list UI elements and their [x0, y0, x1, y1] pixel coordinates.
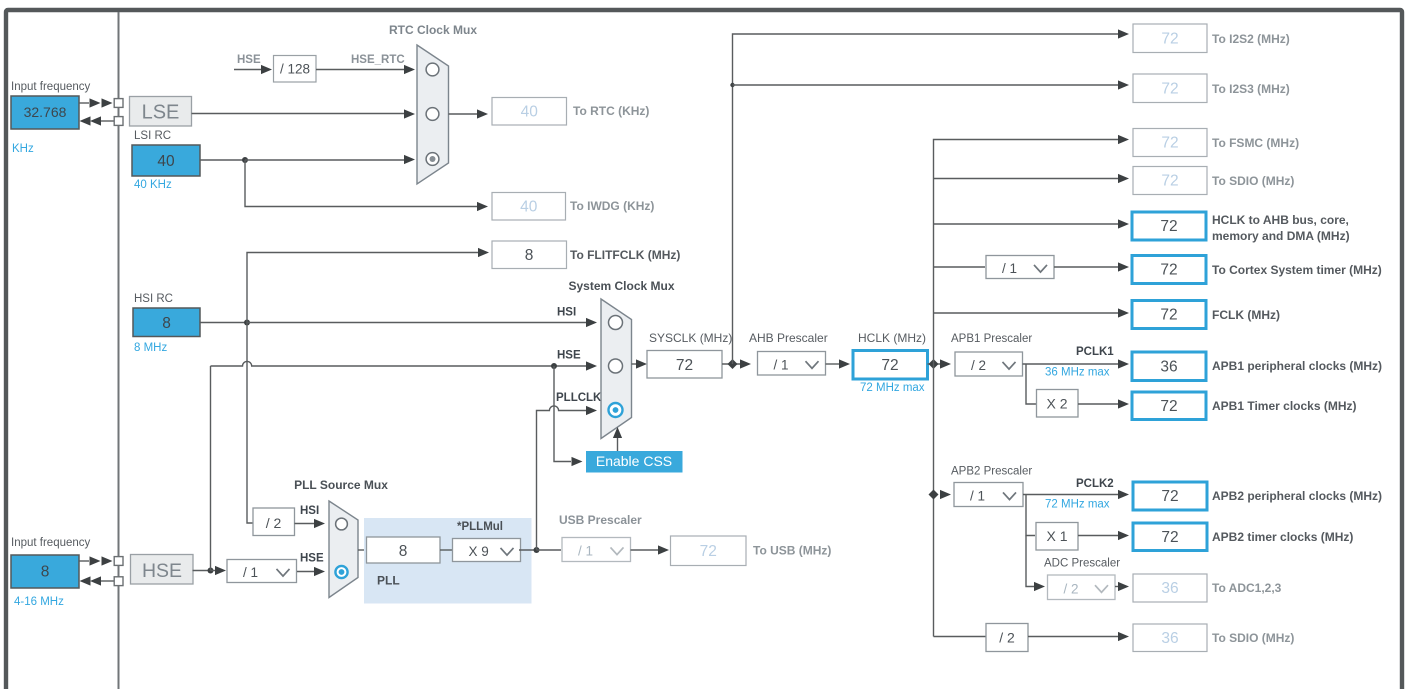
output box To SDIO — [1133, 167, 1207, 195]
output box APB2 timer (active) — [1133, 523, 1207, 551]
svg-text:To I2S2 (MHz): To I2S2 (MHz) — [1212, 32, 1290, 46]
wire SYSCLK to AHB prescaler — [722, 363, 741, 365]
radio HSE (sys) — [609, 359, 623, 373]
svg-text:memory and DMA (MHz): memory and DMA (MHz) — [1212, 229, 1350, 243]
svg-text:8 MHz: 8 MHz — [134, 342, 167, 354]
junction HSI — [244, 320, 250, 326]
wire cortex branch — [934, 266, 986, 268]
prescaler dropdown AHB /1 — [758, 352, 826, 376]
svg-text:/ 2: / 2 — [971, 358, 986, 373]
svg-text:72: 72 — [1161, 135, 1178, 152]
divider box /2 (SDIO) — [986, 624, 1028, 652]
wire ADC prescaler to box — [1115, 586, 1118, 588]
svg-text:/ 2: / 2 — [266, 515, 282, 531]
svg-text:APB1 Prescaler: APB1 Prescaler — [951, 333, 1032, 345]
svg-text:8: 8 — [41, 564, 50, 581]
wire SYSCLK riser to I2S — [733, 34, 1119, 364]
svg-text:To I2S3 (MHz): To I2S3 (MHz) — [1212, 82, 1290, 96]
output box To FLITFCLK — [492, 241, 567, 269]
radio HSI (sys) — [609, 316, 623, 330]
svg-text:/ 1: / 1 — [578, 544, 593, 559]
svg-text:To SDIO (MHz): To SDIO (MHz) — [1212, 174, 1294, 188]
wire PLL box to PLLMul — [440, 549, 453, 551]
radio LSI input (selected) — [426, 153, 439, 166]
svg-text:72: 72 — [1160, 398, 1177, 415]
prescaler dropdown cortex /1 — [986, 256, 1054, 279]
svg-text:PLLCLK: PLLCLK — [556, 392, 602, 404]
wire HCLK bus to SDIO /2 — [934, 636, 987, 638]
output box APB1 timer (active) — [1132, 392, 1206, 420]
svg-text:AHB Prescaler: AHB Prescaler — [749, 331, 828, 345]
svg-text:X 2: X 2 — [1046, 396, 1067, 412]
wire I2S3 branch — [730, 83, 734, 87]
wire HSE riser to system mux — [210, 366, 212, 571]
oscillator box LSE — [130, 97, 192, 127]
junction LSI — [242, 157, 248, 163]
wire HCLK bus riser down — [933, 364, 935, 637]
svg-text:To IWDG (KHz): To IWDG (KHz) — [570, 199, 654, 213]
wire enable CSS to mux — [617, 438, 619, 451]
wire HSI to junction — [200, 322, 247, 324]
svg-text:36: 36 — [1161, 630, 1178, 647]
svg-text:72: 72 — [1161, 173, 1178, 190]
svg-text:HSE_RTC: HSE_RTC — [351, 54, 405, 66]
radio HSE (pll, selected) — [335, 566, 347, 578]
svg-text:HSI RC: HSI RC — [134, 293, 173, 305]
wire HSI riser to FLITFCLK — [247, 253, 478, 323]
svg-text:HSI: HSI — [300, 505, 319, 517]
wire X1 to APB2 timer box — [1078, 535, 1118, 537]
svg-text:/ 128: / 128 — [280, 62, 310, 77]
divider dropdown /1 (HSE to PLL) — [227, 560, 297, 583]
input box 8 MHz HSE — [11, 555, 79, 588]
junction HCLK diamond — [929, 359, 939, 369]
wire LSI to IWDG — [245, 160, 477, 207]
wire AHB to HCLK — [826, 363, 840, 365]
svg-text:40: 40 — [520, 198, 538, 215]
output box APB1 peripheral (active) — [1132, 352, 1206, 381]
svg-text:72: 72 — [1161, 529, 1178, 546]
wire enable CSS feed — [554, 366, 571, 462]
svg-text:To FLITFCLK (MHz): To FLITFCLK (MHz) — [570, 248, 680, 262]
svg-text:LSI RC: LSI RC — [134, 130, 171, 142]
svg-text:APB2 timer clocks (MHz): APB2 timer clocks (MHz) — [1212, 530, 1353, 544]
svg-text:HSE: HSE — [142, 560, 182, 582]
prescaler dropdown APB1 /2 — [955, 352, 1023, 376]
wire HCLK bus riser up — [934, 140, 1119, 365]
svg-text:72: 72 — [1160, 262, 1177, 279]
junction SYSCLK diamond — [728, 359, 738, 369]
svg-text:FCLK (MHz): FCLK (MHz) — [1212, 308, 1280, 322]
svg-text:/ 2: / 2 — [1064, 581, 1079, 596]
svg-text:Enable CSS: Enable CSS — [596, 453, 672, 469]
wire LSI to RTC mux — [245, 159, 404, 161]
output box To I2S2 — [1133, 24, 1207, 53]
wire /1 to PLL mux — [297, 571, 314, 573]
svg-text:8: 8 — [399, 543, 408, 560]
wire FCLK branch — [934, 312, 1119, 314]
svg-text:KHz: KHz — [12, 143, 34, 155]
wire HSE box to junction — [193, 570, 211, 572]
svg-text:/ 1: / 1 — [1002, 261, 1017, 276]
output box To Cortex (active) — [1132, 256, 1206, 284]
svg-text:72: 72 — [1160, 218, 1177, 235]
svg-text:Input frequency: Input frequency — [11, 81, 91, 93]
wire /2 to PLL mux — [295, 523, 315, 525]
wire APB2 branch to ADC — [1026, 536, 1034, 587]
svg-text:Input frequency: Input frequency — [11, 537, 91, 549]
wire APB1 to PCLK1 box — [1023, 363, 1119, 365]
output box To RTC — [492, 98, 567, 126]
wire USB prescaler to box — [631, 549, 659, 551]
svg-text:36: 36 — [1160, 358, 1177, 375]
svg-text:PCLK1: PCLK1 — [1076, 346, 1114, 358]
svg-text:72: 72 — [700, 543, 717, 560]
wire PLL mux to PLL — [358, 549, 367, 551]
svg-text:40 KHz: 40 KHz — [134, 179, 172, 191]
svg-text:/ 1: / 1 — [243, 565, 258, 580]
PLL region background — [364, 518, 532, 604]
svg-text:36 MHz max: 36 MHz max — [1045, 367, 1110, 379]
wire PLLMul to junction — [519, 549, 536, 551]
svg-text:X 9: X 9 — [469, 544, 489, 559]
value box SYSCLK 72 — [647, 351, 722, 379]
svg-text:4-16 MHz: 4-16 MHz — [14, 596, 64, 608]
wire APB1 branch to X2 — [1026, 364, 1036, 404]
wire HCLK to APB1 — [928, 363, 942, 365]
svg-text:72 MHz max: 72 MHz max — [1045, 499, 1110, 511]
svg-text:HCLK (MHz): HCLK (MHz) — [858, 331, 926, 345]
multiplier dropdown X9 — [453, 539, 521, 562]
svg-text:X 1: X 1 — [1046, 528, 1067, 544]
svg-text:36: 36 — [1161, 580, 1178, 597]
wire LSE input to rail — [79, 102, 89, 104]
svg-text:LSE: LSE — [142, 102, 180, 124]
svg-text:/ 2: / 2 — [999, 630, 1015, 646]
svg-text:72: 72 — [1160, 307, 1177, 324]
divider box /128 — [274, 56, 317, 83]
prescaler dropdown USB /1 (inactive) — [562, 538, 631, 562]
svg-text:HCLK to AHB bus, core,: HCLK to AHB bus, core, — [1212, 213, 1349, 227]
divider box /2 (HSI to PLL) — [253, 508, 295, 536]
svg-text:To Cortex System timer (MHz): To Cortex System timer (MHz) — [1212, 263, 1382, 277]
svg-text:HSI: HSI — [557, 307, 576, 319]
wire SDIO branch — [934, 178, 1119, 180]
svg-text:APB2 Prescaler: APB2 Prescaler — [951, 466, 1032, 478]
wire HSI riser to PLL /2 — [247, 323, 253, 524]
radio HSI (pll) — [336, 518, 348, 530]
wire cortex prescaler to box — [1054, 266, 1118, 268]
wire PLLCLK riser with hop — [537, 406, 587, 550]
wire /2 to SDIO box — [1028, 636, 1118, 638]
wire rail to LSE back — [100, 120, 115, 122]
svg-text:RTC Clock Mux: RTC Clock Mux — [389, 23, 477, 37]
wire rail to HSE back — [100, 580, 115, 582]
junction PLL output — [534, 547, 540, 553]
output box To IWDG — [492, 193, 566, 221]
svg-text:To ADC1,2,3: To ADC1,2,3 — [1212, 581, 1282, 595]
svg-text:72 MHz max: 72 MHz max — [860, 382, 925, 394]
svg-text:72: 72 — [1161, 488, 1178, 505]
mux RTC Clock Mux body — [417, 45, 449, 184]
svg-text:System Clock Mux: System Clock Mux — [568, 279, 674, 293]
wire LSI to junction — [200, 159, 245, 161]
junction HSE to CSS — [551, 363, 557, 369]
multiplier box X2 — [1037, 390, 1079, 418]
wire HSE input to rail — [79, 560, 89, 562]
rail pin square lower — [114, 117, 123, 126]
svg-text:40: 40 — [157, 153, 175, 170]
radio PLLCLK (sys, selected) — [609, 403, 623, 417]
oscillator box HSE — [131, 555, 194, 585]
wire APB2 to PCLK2 box — [1023, 494, 1118, 496]
svg-text:8: 8 — [525, 247, 534, 264]
output box To FSMC — [1133, 129, 1207, 157]
svg-text:To FSMC (MHz): To FSMC (MHz) — [1212, 136, 1299, 150]
rail pin square upper — [114, 99, 123, 108]
wire HSI to system mux — [247, 322, 586, 324]
svg-text:To USB (MHz): To USB (MHz) — [753, 544, 831, 558]
junction APB2 diamond — [929, 490, 939, 500]
radio HSE_RTC input — [426, 63, 439, 76]
mux System Clock Mux body — [601, 299, 632, 439]
wire PLL to USB prescaler — [537, 549, 562, 551]
svg-text:ADC Prescaler: ADC Prescaler — [1044, 558, 1120, 570]
svg-text:32.768: 32.768 — [24, 104, 67, 120]
output box To SDIO bottom — [1133, 624, 1207, 652]
svg-text:HSE: HSE — [557, 350, 581, 362]
wire HSE horizontal with hop over HSI riser — [211, 361, 587, 366]
svg-text:*PLLMul: *PLLMul — [457, 521, 503, 533]
junction HSE — [208, 568, 214, 574]
output box FCLK (active) — [1132, 301, 1206, 329]
mux PLL Source Mux body — [329, 501, 358, 598]
svg-text:PCLK2: PCLK2 — [1076, 478, 1114, 490]
svg-text:To SDIO (MHz): To SDIO (MHz) — [1212, 631, 1294, 645]
radio LSE input — [426, 108, 439, 121]
enable CSS button — [586, 451, 683, 473]
rail pin square HSE lower — [114, 577, 123, 586]
svg-text:APB2 peripheral clocks (MHz): APB2 peripheral clocks (MHz) — [1212, 489, 1382, 503]
svg-text:72: 72 — [1161, 80, 1178, 97]
prescaler dropdown APB2 /1 — [954, 483, 1023, 507]
svg-text:PLL: PLL — [377, 574, 400, 588]
wire RTC mux output — [449, 113, 478, 115]
prescaler dropdown ADC /2 (inactive) — [1048, 575, 1116, 600]
svg-text:/ 1: / 1 — [774, 357, 789, 372]
svg-text:8: 8 — [162, 315, 171, 332]
svg-text:SYSCLK (MHz): SYSCLK (MHz) — [649, 331, 732, 345]
PLL input value box 8 — [367, 537, 441, 563]
output box To USB — [671, 536, 747, 566]
svg-text:To RTC (KHz): To RTC (KHz) — [573, 104, 649, 118]
svg-text:HSE: HSE — [237, 54, 261, 66]
wire sys mux to SYSCLK — [632, 363, 637, 365]
wire /128 to RTC mux — [316, 69, 404, 71]
multiplier box X1 — [1036, 523, 1078, 551]
value box HCLK 72 (active) — [853, 351, 928, 380]
svg-text:72: 72 — [881, 357, 898, 374]
output box HCLK to AHB (active) — [1132, 212, 1206, 240]
svg-text:40: 40 — [521, 103, 539, 120]
oscillator box HSI RC 8 — [133, 308, 200, 337]
wire APB2 branch to X1 — [1026, 495, 1035, 536]
output box To ADC — [1133, 574, 1207, 602]
svg-text:APB1 Timer clocks (MHz): APB1 Timer clocks (MHz) — [1212, 399, 1357, 413]
svg-text:PLL Source Mux: PLL Source Mux — [294, 478, 388, 492]
left boundary rail — [118, 12, 120, 689]
wire X2 to APB1 timer box — [1078, 403, 1118, 405]
rail pin square HSE upper — [114, 557, 123, 566]
svg-text:USB Prescaler: USB Prescaler — [559, 513, 642, 527]
input box 32.768 KHz — [11, 96, 79, 129]
svg-text:HSE: HSE — [300, 553, 324, 565]
wire HSE junction to /1 prescaler — [211, 570, 216, 572]
svg-text:APB1 peripheral clocks (MHz): APB1 peripheral clocks (MHz) — [1212, 359, 1382, 373]
oscillator box LSI RC 40 — [132, 145, 200, 176]
svg-text:/ 1: / 1 — [970, 489, 985, 504]
svg-text:72: 72 — [676, 357, 693, 374]
wire LSE to RTC mux — [192, 113, 405, 115]
output box To I2S3 — [1133, 74, 1207, 103]
svg-text:72: 72 — [1161, 30, 1178, 47]
wire HSE to /128 — [234, 69, 261, 71]
wire HCLK AHB branch — [934, 223, 1119, 225]
output box APB2 peripheral (active) — [1133, 482, 1207, 510]
